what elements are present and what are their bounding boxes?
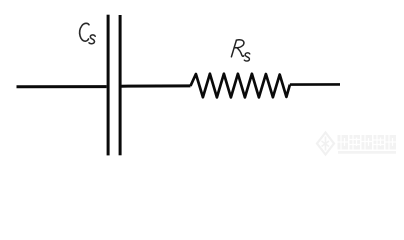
watermark logo diamond [317,133,334,155]
label C_s letter C [80,23,89,41]
wire right lead [290,83,340,86]
watermark character stroke texture [338,135,397,150]
wire between capacitor and resistor [122,84,191,87]
label R_s letter R leg [237,48,244,57]
resistor R_s zigzag [191,74,290,98]
wire left lead [17,85,107,88]
watermark text 仪器信息网 (faint character blocks) [338,135,397,154]
label R_s subscript s [244,53,250,61]
label C_s subscript s [89,35,95,44]
capacitor C_s left plate [107,15,110,156]
label R_s letter R bowl [234,40,244,48]
label R_s letter R stem [231,40,236,57]
capacitor C_s right plate [119,15,122,155]
